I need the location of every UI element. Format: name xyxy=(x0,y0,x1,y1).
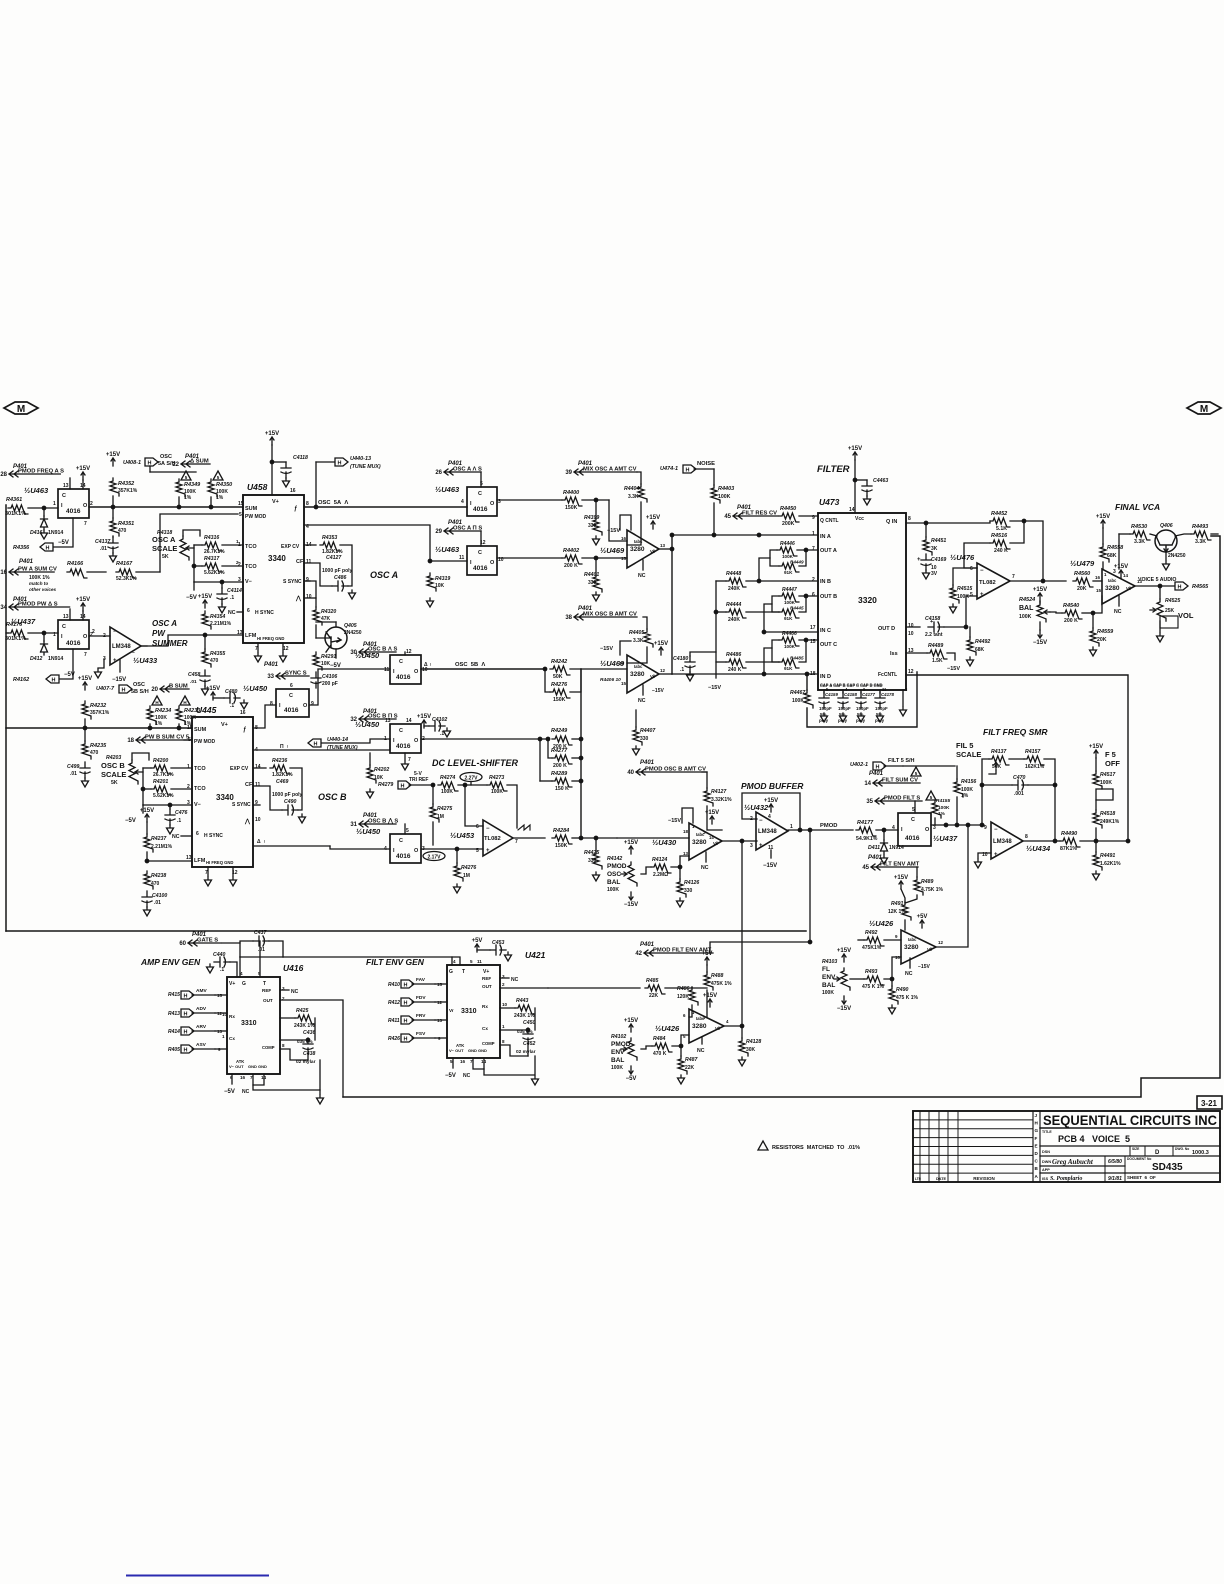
svg-text:FILTER: FILTER xyxy=(817,464,850,475)
svg-text:14: 14 xyxy=(864,781,871,787)
resistor R4242 50K xyxy=(550,666,570,675)
svg-text:PMOD: PMOD xyxy=(611,1041,631,1048)
svg-text:1%: 1% xyxy=(961,793,969,799)
svg-text:R443: R443 xyxy=(516,998,529,1004)
svg-text:5: 5 xyxy=(217,475,220,480)
svg-text:1M: 1M xyxy=(437,814,444,820)
ground arrow R4401 xyxy=(593,592,600,601)
svg-text:FILT ENV GEN: FILT ENV GEN xyxy=(366,957,425,967)
svg-text:HI FREQ GND: HI FREQ GND xyxy=(206,860,233,865)
svg-text:½U430: ½U430 xyxy=(652,838,677,847)
svg-text:6: 6 xyxy=(683,1013,686,1018)
svg-text:R4176: R4176 xyxy=(6,622,23,628)
svg-text:OSC A: OSC A xyxy=(152,619,177,628)
svg-text:EXP CV: EXP CV xyxy=(230,766,249,772)
svg-text:200K: 200K xyxy=(782,521,795,527)
capacitor C458 .01 xyxy=(200,670,210,686)
resistor R4275 1M xyxy=(430,804,439,822)
svg-text:2N4250: 2N4250 xyxy=(344,630,362,636)
svg-text:TL082: TL082 xyxy=(979,580,996,586)
capacitor C476 xyxy=(165,809,175,825)
svg-text:R4355: R4355 xyxy=(210,651,225,657)
resistor R4233 100K 1% xyxy=(176,706,185,724)
svg-text:SEQUENTIAL CIRCUITS INC: SEQUENTIAL CIRCUITS INC xyxy=(1043,1113,1217,1128)
svg-text:3.3K: 3.3K xyxy=(633,638,644,644)
svg-text:R4525: R4525 xyxy=(1165,598,1180,604)
wire gate bus right xyxy=(239,943,241,957)
wire U476 out to U479 xyxy=(1010,580,1066,582)
IC U450d 4016 xyxy=(390,834,421,863)
svg-text:Δ SUM: Δ SUM xyxy=(190,459,209,465)
svg-text:PMOD PW Δ S: PMOD PW Δ S xyxy=(18,602,58,608)
svg-text:6: 6 xyxy=(196,831,199,837)
svg-text:25K: 25K xyxy=(1165,608,1175,614)
svg-text:TCO: TCO xyxy=(194,766,206,772)
svg-text:.1: .1 xyxy=(230,595,234,601)
svg-text:16: 16 xyxy=(619,661,625,666)
svg-text:14: 14 xyxy=(709,835,714,840)
svg-text:12: 12 xyxy=(908,669,914,675)
matched triangle 5 b xyxy=(213,471,223,480)
svg-text:C: C xyxy=(62,493,66,499)
svg-text:+15V: +15V xyxy=(1089,744,1103,750)
wire U450c out to R4249 xyxy=(421,738,548,740)
svg-text:½U469: ½U469 xyxy=(600,546,625,555)
svg-text:2.27V: 2.27V xyxy=(464,776,478,782)
svg-text:½U453: ½U453 xyxy=(450,831,475,840)
capacitor C470 .001 xyxy=(1012,780,1028,790)
svg-text:3: 3 xyxy=(905,687,908,692)
svg-text:I: I xyxy=(393,848,395,854)
svg-text:TRI REF: TRI REF xyxy=(409,777,428,783)
svg-text:−5V: −5V xyxy=(186,595,197,601)
capacitor C4106 200pF xyxy=(311,672,321,688)
resistor R4127 3.32K1% xyxy=(704,788,713,806)
title block 3-21 box xyxy=(1197,1096,1222,1109)
svg-text:1: 1 xyxy=(790,824,793,830)
resistor R4445 91K xyxy=(779,609,799,618)
connector U440-13 TUNE MUX xyxy=(316,461,334,463)
svg-text:R4352: R4352 xyxy=(118,481,134,487)
svg-text:U445: U445 xyxy=(196,705,217,715)
svg-text:SD435: SD435 xyxy=(1152,1162,1183,1173)
svg-text:68K: 68K xyxy=(1107,553,1117,559)
resistor R487 22K xyxy=(678,1056,687,1074)
svg-text:OSC: OSC xyxy=(607,871,621,878)
svg-text:VOICE 5 AUDIO: VOICE 5 AUDIO xyxy=(1138,577,1176,583)
svg-text:32: 32 xyxy=(350,717,357,723)
svg-text:11: 11 xyxy=(255,782,261,788)
svg-text:U416: U416 xyxy=(283,963,304,973)
resistor R493 475K1% xyxy=(864,976,884,985)
svg-text:+: + xyxy=(917,557,921,563)
svg-text:C4127: C4127 xyxy=(326,555,342,561)
connector U440-14 TUNE MUX xyxy=(308,739,321,747)
svg-text:.1: .1 xyxy=(230,703,234,709)
svg-text:20K: 20K xyxy=(1097,637,1107,643)
wire V- pin3 xyxy=(194,581,243,583)
wire OSC 5A output bus xyxy=(304,506,467,508)
svg-text:M: M xyxy=(17,404,25,415)
svg-text:O: O xyxy=(490,501,495,507)
svg-text:NC: NC xyxy=(905,971,913,977)
pot R4103 FL ENV BAL xyxy=(841,968,850,990)
svg-text:(TUNE MUX): (TUNE MUX) xyxy=(350,464,381,470)
wire U437a pin7 to -5V xyxy=(60,649,73,679)
svg-text:6: 6 xyxy=(290,683,293,689)
resistor R4352 357K1% xyxy=(110,478,119,496)
svg-text:R4559: R4559 xyxy=(1097,629,1114,635)
svg-text:7: 7 xyxy=(84,652,87,658)
svg-text:1%: 1% xyxy=(184,495,192,501)
svg-text:+15V: +15V xyxy=(624,1018,638,1024)
wire U433 inputs xyxy=(89,635,110,637)
resistor R491 12K1% xyxy=(902,902,911,920)
svg-text:D: D xyxy=(1035,1151,1039,1156)
svg-text:REF: REF xyxy=(482,976,491,981)
svg-text:9: 9 xyxy=(311,701,314,707)
svg-text:6: 6 xyxy=(970,566,973,572)
wire pmod filt env line xyxy=(710,942,810,953)
svg-text:D: D xyxy=(1155,1150,1160,1156)
power +15V U479 xyxy=(1119,570,1123,578)
svg-text:C4159: C4159 xyxy=(825,692,838,697)
svg-text:ADV: ADV xyxy=(196,1006,207,1012)
svg-text:R4530: R4530 xyxy=(1131,524,1147,530)
svg-text:C4137: C4137 xyxy=(95,539,111,545)
svg-text:2.21M1%: 2.21M1% xyxy=(151,844,173,850)
svg-text:13: 13 xyxy=(186,855,192,861)
svg-text:Vcc: Vcc xyxy=(855,516,864,522)
svg-text:R413: R413 xyxy=(168,1011,180,1017)
svg-text:I: I xyxy=(393,738,395,744)
svg-text:H: H xyxy=(404,1037,408,1043)
svg-text:−15V: −15V xyxy=(600,646,613,652)
IC U463a 4016 xyxy=(58,489,89,518)
svg-text:5: 5 xyxy=(915,771,918,776)
svg-text:3310: 3310 xyxy=(241,1020,257,1027)
wire U433 supply -15V xyxy=(119,660,121,672)
svg-text:+5V: +5V xyxy=(472,938,483,944)
power +15V R4352 xyxy=(111,458,115,466)
svg-text:V− OUT: V− OUT xyxy=(229,1064,244,1069)
wire U437b out to U434 node xyxy=(931,824,984,826)
svg-text:1000.3: 1000.3 xyxy=(1192,1150,1209,1156)
svg-text:1%: 1% xyxy=(938,811,946,817)
power +15V F5 OFF xyxy=(1094,750,1098,758)
wire U433 output to LFM xyxy=(141,645,147,647)
svg-text:ƒ: ƒ xyxy=(243,727,247,733)
svg-text:PMOD BUFFER: PMOD BUFFER xyxy=(741,781,804,791)
svg-text:C: C xyxy=(478,491,482,497)
svg-text:TCO: TCO xyxy=(245,544,257,550)
svg-text:H: H xyxy=(1178,585,1182,591)
svg-text:V+: V+ xyxy=(221,722,228,728)
resistor R4447 100K xyxy=(779,593,799,602)
wire U426b NC xyxy=(701,1037,703,1044)
resistor R4466 100K outc xyxy=(779,637,799,646)
svg-text:15: 15 xyxy=(238,501,244,507)
svg-text:8: 8 xyxy=(1025,834,1028,840)
svg-text:1N914: 1N914 xyxy=(48,530,63,536)
resistor R4276b 1M xyxy=(454,863,463,881)
svg-text:R4232: R4232 xyxy=(90,703,106,709)
svg-text:PCB 4 VOICE 5: PCB 4 VOICE 5 xyxy=(1058,1134,1130,1144)
svg-text:OSC B Π S: OSC B Π S xyxy=(368,714,398,720)
svg-text:475 K 1%: 475 K 1% xyxy=(862,984,885,990)
transistor Q406 2N4250 xyxy=(1155,530,1177,552)
svg-text:I: I xyxy=(470,501,472,507)
svg-text:R486: R486 xyxy=(677,986,690,992)
svg-text:I: I xyxy=(470,560,472,566)
svg-text:+15V: +15V xyxy=(417,714,431,720)
resistor R4235 470 xyxy=(82,741,91,759)
svg-text:2.21M1%: 2.21M1% xyxy=(210,621,232,627)
svg-text:F 5: F 5 xyxy=(1105,750,1116,759)
capacitor C4100 .01 xyxy=(142,891,152,907)
svg-text:NC: NC xyxy=(291,989,299,995)
svg-text:⋀: ⋀ xyxy=(244,818,251,825)
resistor R4274 100K xyxy=(438,782,458,791)
svg-text:16: 16 xyxy=(460,1059,466,1064)
svg-text:12: 12 xyxy=(660,668,666,673)
svg-text:U458: U458 xyxy=(247,482,268,492)
svg-text:R411: R411 xyxy=(388,1018,400,1024)
IC U445 3340 VCO B xyxy=(192,717,253,867)
svg-text:FAV: FAV xyxy=(416,977,426,983)
svg-text:B: B xyxy=(1035,1166,1039,1171)
svg-text:2.2 tant: 2.2 tant xyxy=(925,632,943,638)
svg-text:R4128: R4128 xyxy=(746,1039,761,1045)
IC U437a 4016 xyxy=(58,620,89,649)
svg-text:G: G xyxy=(449,969,453,975)
svg-text:R487: R487 xyxy=(685,1057,699,1063)
resistor R4491 1.62K1% xyxy=(1093,852,1102,870)
svg-text:10: 10 xyxy=(502,1002,508,1007)
svg-text:240 K: 240 K xyxy=(728,667,742,673)
svg-text:14: 14 xyxy=(406,718,412,724)
svg-text:Greg Aubucht: Greg Aubucht xyxy=(1052,1158,1094,1166)
svg-text:R4238: R4238 xyxy=(151,873,166,879)
resistor R4157 162K1% xyxy=(1024,756,1044,765)
svg-text:150K: 150K xyxy=(555,843,568,849)
svg-text:I: I xyxy=(61,634,63,640)
svg-text:20K: 20K xyxy=(1077,586,1087,592)
power +5V U426a xyxy=(920,920,924,928)
svg-text:+5V: +5V xyxy=(702,951,713,957)
resistor R484 470K xyxy=(652,1043,672,1052)
resistor R4450 200K xyxy=(779,513,799,522)
IC U450c 4016 xyxy=(390,724,421,753)
svg-text:DSN: DSN xyxy=(1042,1150,1050,1154)
wire OUT D to U476 xyxy=(906,626,920,628)
svg-text:IN D: IN D xyxy=(820,674,831,680)
svg-text:R490: R490 xyxy=(896,987,909,993)
power +15V R491 xyxy=(899,881,903,889)
svg-text:5K: 5K xyxy=(162,554,169,560)
svg-text:S SYNC: S SYNC xyxy=(232,802,251,808)
svg-text:R489: R489 xyxy=(921,879,934,885)
svg-text:RESISTORS MATCHED TO .01%: RESISTORS MATCHED TO .01% xyxy=(772,1145,860,1151)
resistor R4448 240K xyxy=(726,578,746,587)
svg-text:2: 2 xyxy=(92,629,95,635)
svg-text:.1: .1 xyxy=(680,667,684,673)
transistor Q405 2N4250 xyxy=(325,627,347,649)
svg-text:5: 5 xyxy=(470,959,473,964)
svg-text:330: 330 xyxy=(588,580,597,586)
svg-text:4016: 4016 xyxy=(905,835,920,842)
ground GND pin filter xyxy=(902,690,904,706)
svg-text:FcCNTL: FcCNTL xyxy=(878,672,897,678)
svg-text:5: 5 xyxy=(185,475,188,480)
svg-text:R4493: R4493 xyxy=(1192,524,1208,530)
svg-text:+15V: +15V xyxy=(703,993,717,999)
wire U434 out xyxy=(1023,840,1055,842)
svg-text:Vθ: Vθ xyxy=(650,549,656,554)
svg-text:3320: 3320 xyxy=(858,595,877,605)
resistor R4349 100K 1% xyxy=(176,479,185,497)
pot R4525 25K VOL xyxy=(1157,599,1166,621)
svg-text:−15V: −15V xyxy=(112,677,126,683)
svg-text:R485: R485 xyxy=(646,978,659,984)
svg-text:ASV: ASV xyxy=(196,1042,207,1048)
wire PMOD output vertical to env amt line xyxy=(809,830,811,942)
svg-text:200 K: 200 K xyxy=(564,563,578,569)
wire U416 T G pins xyxy=(239,957,241,977)
wire S SYNC to Q405 xyxy=(304,581,316,607)
svg-text:60: 60 xyxy=(179,941,186,947)
resistor R4126 330 xyxy=(677,879,686,897)
svg-text:2: 2 xyxy=(502,982,505,987)
resistor R4401 330 xyxy=(593,574,602,592)
svg-text:1%: 1% xyxy=(155,721,163,727)
svg-text:R4451: R4451 xyxy=(931,538,946,544)
svg-text:9/1/81: 9/1/81 xyxy=(1108,1176,1122,1182)
filter cap C4177 150pF xyxy=(856,692,866,708)
svg-text:V+: V+ xyxy=(229,981,235,987)
svg-text:AMP ENV GEN: AMP ENV GEN xyxy=(140,957,201,967)
svg-text:Δ: Δ xyxy=(257,839,261,845)
svg-text:U440-14: U440-14 xyxy=(327,737,348,743)
connector H R4565 xyxy=(1175,582,1188,590)
power +15V R4354 xyxy=(203,600,207,608)
svg-text:OSC B Λ S: OSC B Λ S xyxy=(368,647,397,653)
svg-text:R4234: R4234 xyxy=(155,708,171,714)
svg-text:R4445: R4445 xyxy=(790,606,804,611)
filter cap C4158b 150pF xyxy=(838,692,848,708)
pot R4524 BAL 100K xyxy=(1037,602,1046,622)
svg-text:H: H xyxy=(1035,1121,1039,1126)
resistor R4177 54.9K1% xyxy=(856,827,876,836)
resistor R4236 1.82K1% xyxy=(253,767,266,769)
svg-text:R4320: R4320 xyxy=(321,609,336,615)
svg-text:O: O xyxy=(303,703,308,709)
svg-text:SCALE: SCALE xyxy=(956,750,981,759)
svg-text:1.5K: 1.5K xyxy=(932,658,943,664)
wire U421 comp xyxy=(500,1045,528,1056)
svg-text:R4446: R4446 xyxy=(780,541,795,547)
svg-text:FINAL VCA: FINAL VCA xyxy=(1115,502,1160,512)
svg-text:301K1%: 301K1% xyxy=(5,636,26,642)
svg-text:4016: 4016 xyxy=(473,565,488,572)
svg-text:C4177: C4177 xyxy=(862,692,875,697)
svg-text:+15V: +15V xyxy=(206,686,220,692)
svg-text:FDV: FDV xyxy=(416,995,426,1001)
svg-text:U473: U473 xyxy=(819,497,840,507)
svg-text:100K: 100K xyxy=(792,698,804,704)
power +5V U421 xyxy=(475,944,479,952)
wire U458 pin4 pulse to U463c xyxy=(304,525,467,561)
svg-text:R4517: R4517 xyxy=(1100,772,1116,778)
svg-text:15: 15 xyxy=(1096,588,1102,593)
resistor R4490 87K1% xyxy=(1060,838,1080,847)
svg-text:4016: 4016 xyxy=(396,743,411,750)
svg-text:3K: 3K xyxy=(931,546,938,552)
resistor R4276 150K xyxy=(550,689,570,698)
wire left border to R4176 xyxy=(6,632,8,634)
svg-text:+15V: +15V xyxy=(76,597,90,603)
svg-text:R492: R492 xyxy=(865,930,878,936)
svg-text:C453: C453 xyxy=(492,940,505,946)
op-amp U476 TL082 xyxy=(977,563,1010,599)
svg-text:GATE S: GATE S xyxy=(197,938,218,944)
svg-text:CF: CF xyxy=(245,782,253,788)
wire Q406 emitter ground xyxy=(1165,552,1167,560)
svg-text:R4565: R4565 xyxy=(1192,584,1209,590)
wire OSC 5B bus xyxy=(310,669,390,705)
wire U463b out xyxy=(497,499,562,501)
wire filter left bus links xyxy=(715,581,717,678)
R4517 bypass bracket xyxy=(1096,789,1113,800)
svg-text:C4178: C4178 xyxy=(881,692,894,697)
svg-text:R4486: R4486 xyxy=(726,652,741,658)
svg-text:SCALE: SCALE xyxy=(152,544,177,553)
svg-text:3280: 3280 xyxy=(630,546,645,553)
resistor R443 243K1% xyxy=(515,1005,535,1014)
svg-text:7: 7 xyxy=(515,839,518,845)
svg-text:3280: 3280 xyxy=(692,1023,707,1030)
svg-text:Iabc: Iabc xyxy=(908,937,917,942)
svg-text:COMP: COMP xyxy=(482,1041,495,1046)
svg-text:Q CNTL: Q CNTL xyxy=(820,518,839,524)
svg-text:R4200: R4200 xyxy=(153,758,168,764)
svg-text:−: − xyxy=(980,568,984,574)
ground U445 pin12 xyxy=(232,867,234,876)
svg-text:R4237: R4237 xyxy=(151,836,167,842)
svg-text:R414: R414 xyxy=(168,1029,180,1035)
resistor R4493 3.3K xyxy=(1191,531,1211,540)
svg-text:.1: .1 xyxy=(220,967,224,973)
svg-text:BAL: BAL xyxy=(611,1057,624,1064)
svg-text:BAL: BAL xyxy=(1019,605,1034,612)
svg-text:R4155: R4155 xyxy=(936,798,950,804)
svg-text:2.17V: 2.17V xyxy=(427,855,441,861)
svg-text:5.1K: 5.1K xyxy=(996,526,1007,532)
svg-text:NC: NC xyxy=(463,1073,471,1079)
svg-text:BAL: BAL xyxy=(822,982,835,989)
svg-text:150 K: 150 K xyxy=(555,786,569,792)
svg-text:C: C xyxy=(478,550,482,556)
svg-text:+: + xyxy=(486,848,490,854)
svg-text:3280: 3280 xyxy=(630,671,645,678)
resistor R4486 240K xyxy=(726,659,746,668)
wire U445 pin8 sum out xyxy=(253,705,276,728)
svg-text:LM348: LM348 xyxy=(993,839,1012,845)
svg-text:7: 7 xyxy=(812,546,815,552)
svg-text:R4492: R4492 xyxy=(975,639,990,645)
svg-text:V−: V− xyxy=(194,802,201,808)
resistor R4350 100K 1% xyxy=(208,479,217,497)
